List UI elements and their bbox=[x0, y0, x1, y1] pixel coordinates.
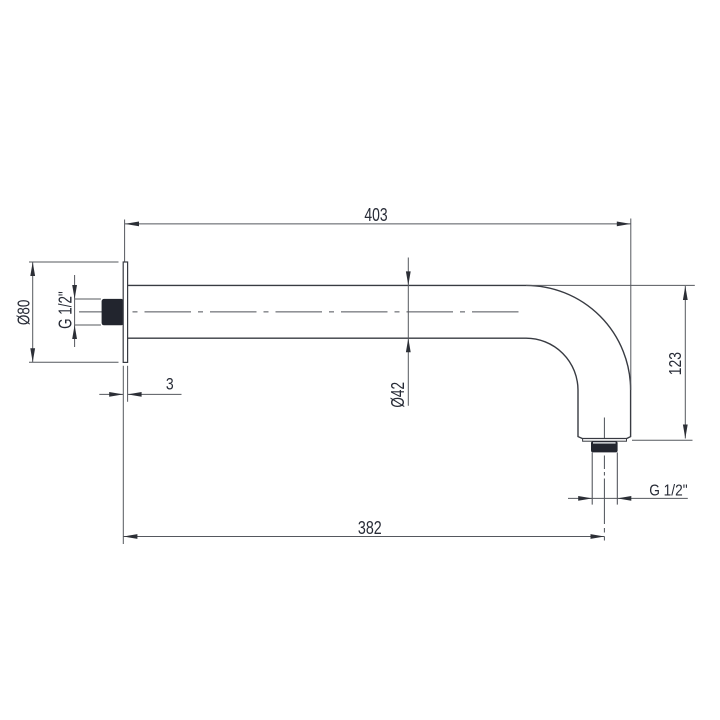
svg-text:123: 123 bbox=[665, 352, 685, 375]
svg-text:Ø80: Ø80 bbox=[13, 300, 33, 325]
svg-text:Ø42: Ø42 bbox=[387, 382, 408, 408]
svg-text:G 1/2": G 1/2" bbox=[55, 291, 75, 329]
svg-text:G 1/2": G 1/2" bbox=[649, 482, 687, 499]
svg-text:403: 403 bbox=[364, 204, 387, 225]
svg-text:382: 382 bbox=[358, 517, 382, 538]
svg-text:3: 3 bbox=[166, 374, 174, 393]
